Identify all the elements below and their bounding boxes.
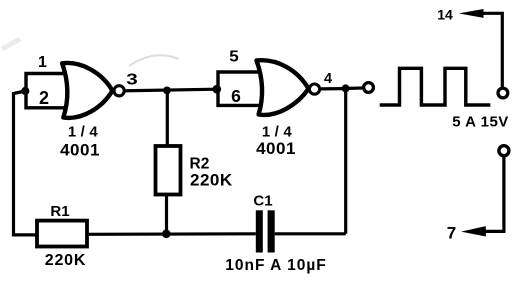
svg-text:1: 1: [38, 54, 47, 71]
wire: left feedback vertical: [14, 91, 38, 235]
svg-text:1/4: 1/4: [262, 123, 296, 140]
svg-text:14: 14: [437, 6, 453, 22]
capacitor C1 plates: [256, 210, 263, 252]
resistor R2: [156, 146, 181, 195]
wire: output down to rail: [344, 88, 347, 233]
wire: node3 down to R2: [166, 90, 169, 146]
svg-text:5 A 15V: 5 A 15V: [452, 114, 509, 131]
svg-text:6: 6: [231, 86, 241, 106]
wire: gate1 input bracket: [26, 74, 64, 108]
svg-text:R1: R1: [50, 203, 69, 220]
svg-text:5: 5: [229, 49, 239, 66]
svg-text:4: 4: [324, 71, 332, 87]
wire: pin14 to supply terminal: [482, 13, 502, 87]
ground terminal circle (7): [499, 146, 509, 156]
wire: R2 bottom to rail: [165, 195, 168, 234]
svg-text:2: 2: [39, 88, 49, 108]
wire: terminal down to pin7 arrow: [484, 157, 504, 231]
svg-text:1/4: 1/4: [68, 123, 102, 140]
svg-text:3: 3: [126, 72, 138, 89]
pin 14 arrow: [459, 9, 484, 18]
svg-text:C1: C1: [253, 193, 272, 210]
node A: junction dot at gate1 input: [21, 87, 29, 95]
wire: bottom rail C1 to output drop: [275, 232, 346, 235]
wire: to output terminal: [349, 86, 362, 90]
svg-text:4001: 4001: [60, 141, 100, 160]
node: junction dot gate2 input: [213, 85, 222, 94]
node: junction dot R2/rail: [162, 230, 171, 239]
output terminal circle: [364, 83, 374, 93]
svg-text:220K: 220K: [45, 252, 86, 269]
svg-text:10nF A 10µF: 10nF A 10µF: [225, 257, 326, 274]
gate2 inversion bubble: [309, 84, 319, 94]
svg-text:220K: 220K: [190, 171, 233, 190]
svg-text:4001: 4001: [256, 139, 296, 158]
op-amp U2: NOR gate 2 body: [257, 60, 309, 115]
wire: bottom rail R1 to C1: [87, 232, 256, 236]
svg-text:7: 7: [447, 224, 456, 243]
wire: gate2 input bracket: [218, 72, 259, 105]
supply terminal circle (14): [498, 88, 508, 98]
node: output junction dot: [342, 84, 350, 92]
node: junction dot to R2: [163, 87, 171, 95]
pin 7 arrow: [461, 226, 486, 236]
resistor R1: [37, 221, 87, 247]
wire: gate1 output to gate2 input: [126, 89, 218, 91]
waveform: square wave output: [380, 68, 491, 105]
gate1 inversion bubble: [114, 86, 124, 96]
op-amp U1: NOR gate 1 body: [62, 63, 112, 118]
wire: gate2 output: [321, 87, 342, 91]
